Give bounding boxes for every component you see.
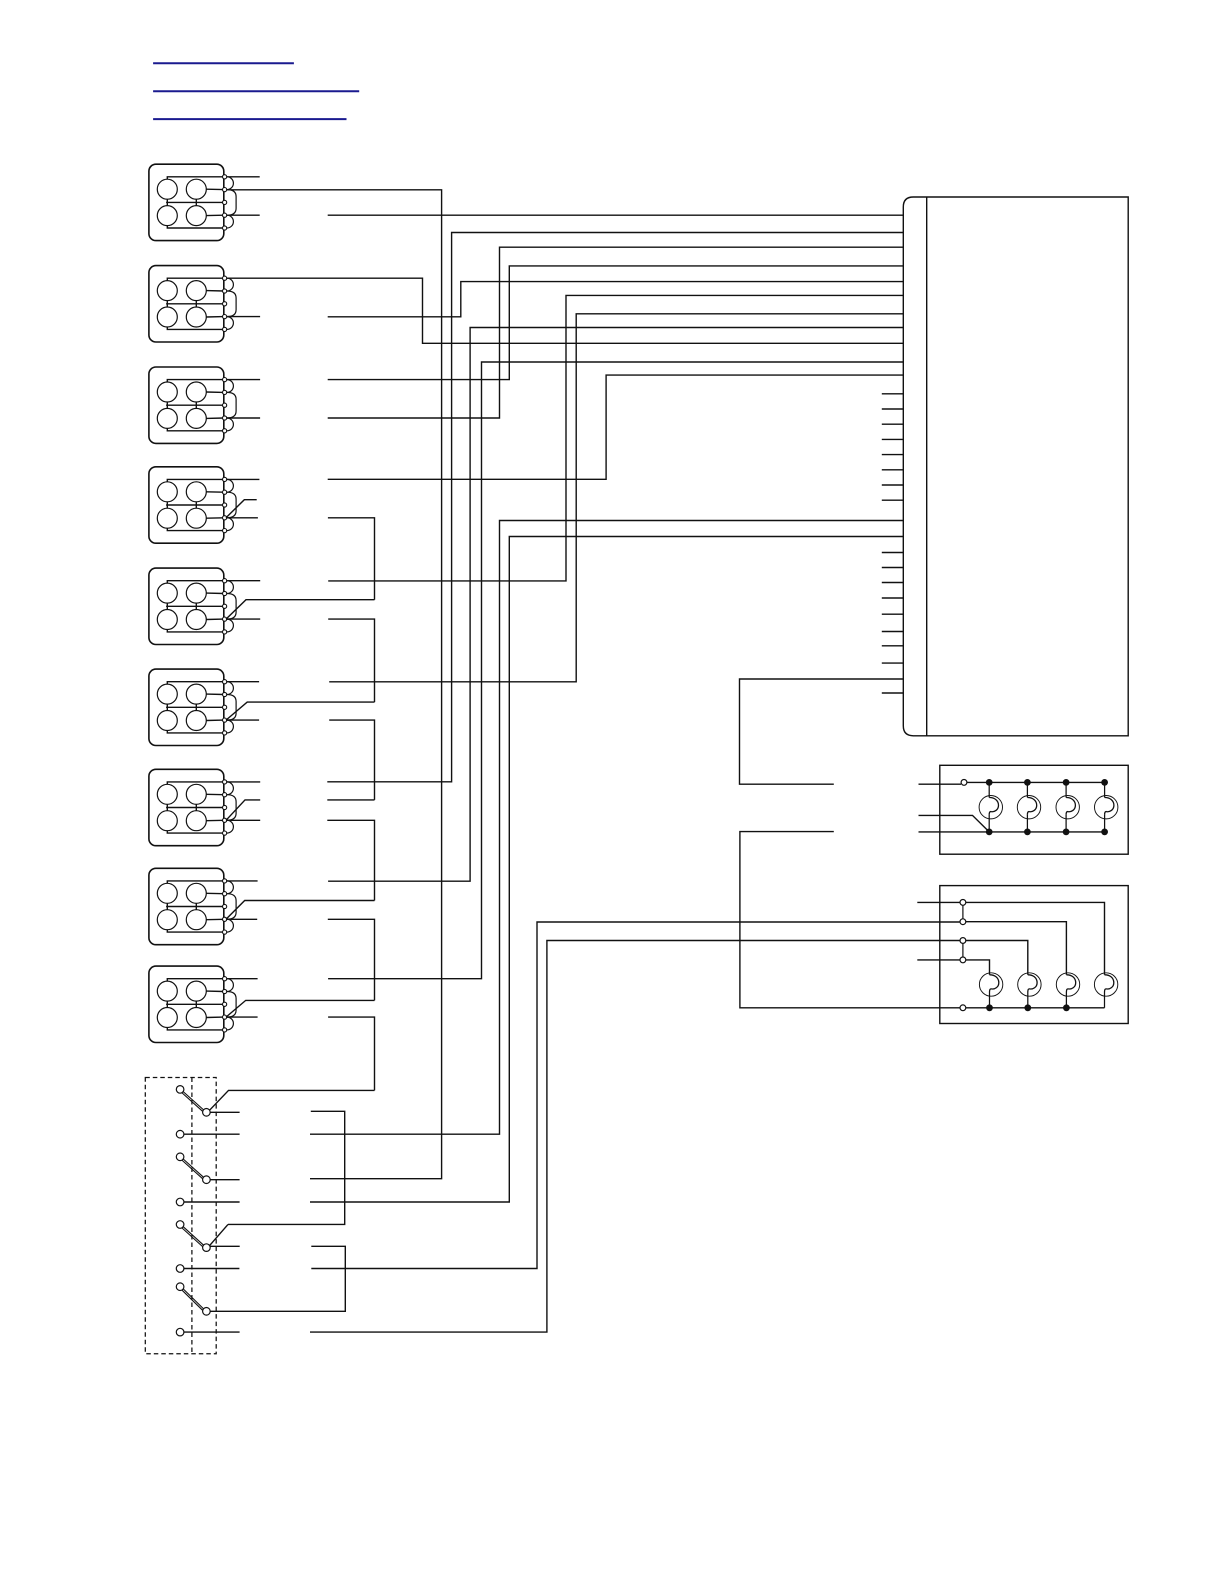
lamp L1c bulb bbox=[1056, 796, 1079, 819]
wire J7 pin1 stub bbox=[227, 781, 261, 783]
ECU pin stub B8 bbox=[882, 662, 904, 664]
leader J8 pin4 diagonal bbox=[226, 901, 375, 920]
terminal T2 bbox=[176, 1198, 184, 1206]
leader J7 pin4 diagonal bbox=[226, 800, 260, 820]
leader J4 pin4 diagonal bbox=[226, 500, 257, 518]
wire J6 pin1 stub bbox=[227, 681, 259, 683]
lamp L2c junction bbox=[1063, 1004, 1070, 1011]
lamp L2b bulb bbox=[1018, 973, 1041, 996]
lamp module 2 pin4 stub bbox=[917, 959, 960, 961]
ECU pin stub A2 bbox=[882, 408, 904, 410]
terminal T4 bbox=[176, 1328, 184, 1336]
lamp L1c stem top bbox=[1065, 782, 1067, 797]
wire J7 leader segment bbox=[327, 799, 374, 801]
lamp L1b stem top bbox=[1026, 782, 1028, 797]
hyperlink underline 2 bbox=[153, 90, 359, 92]
leader J6 pin4 diagonal bbox=[226, 702, 375, 720]
lamp L1a filament bbox=[989, 797, 998, 814]
lamp L1d junction bottom bbox=[1101, 829, 1108, 836]
wire S1 common diagonal to chain F bbox=[210, 1090, 375, 1110]
ECU pin stub B7 bbox=[882, 645, 904, 647]
wire S1 output stub bbox=[210, 1111, 239, 1113]
hyperlink underline 1 bbox=[153, 62, 294, 64]
lamp L1d stem bottom bbox=[1104, 815, 1106, 832]
lamp L1d bulb bbox=[1095, 796, 1118, 819]
wire J6 pin4 stub bbox=[227, 719, 259, 721]
wire J3 pin1 to ECU row4 bbox=[328, 266, 904, 380]
terminal T1 bbox=[176, 1130, 184, 1138]
wire J8 pin4 down chain E bbox=[328, 919, 375, 1000]
lamp L2b stem bottom bbox=[1027, 992, 1029, 1008]
connector J4 bbox=[149, 467, 236, 543]
connector J5 bbox=[149, 568, 236, 644]
wire J2 pin1 to ECU row9 bbox=[227, 278, 904, 343]
lamp module 1 box bbox=[940, 765, 1128, 854]
wire J1 pin2 to vertical x441 bbox=[227, 190, 442, 1179]
lamp L1b bulb bbox=[1017, 796, 1040, 819]
wire ECU row14 to lamp module1 pin1 bbox=[740, 679, 904, 784]
wire term1 to ECU row12 bbox=[310, 521, 903, 1135]
wire J5 pin1 to ECU row6 bbox=[328, 295, 903, 581]
terminal T3 bbox=[176, 1265, 184, 1273]
lamp module 2 bottom bus bbox=[966, 1007, 1105, 1009]
connector J8 bbox=[149, 868, 236, 944]
lamp L2d stem bottom bbox=[1104, 992, 1106, 1008]
wire pin1 to lamp L2d bbox=[966, 902, 1105, 974]
wire term3 stub bbox=[184, 1268, 240, 1270]
lamp module 2 pin2 bbox=[960, 919, 966, 925]
lamp L2a filament bbox=[990, 975, 999, 992]
wire J1 pin4 to ECU pin row1 bbox=[328, 214, 904, 216]
connector J7 bbox=[149, 769, 236, 845]
wire J2 pin4 stub bbox=[227, 316, 260, 318]
lamp module 2 pin5 bbox=[960, 1005, 966, 1011]
wire J4 pin1 to ECU row11 bbox=[328, 375, 904, 479]
lamp module 2 box bbox=[940, 886, 1128, 1024]
connector J9 bbox=[149, 966, 236, 1042]
lamp module 2 pin1 bbox=[960, 900, 966, 906]
lamp L1a bulb bbox=[979, 796, 1002, 819]
wire J9 pin4 stub bbox=[227, 1016, 258, 1018]
ECU pin stub B3 bbox=[882, 582, 904, 584]
wire J7 pin4 down chain D bbox=[327, 820, 374, 900]
lamp module 2 pin3-4 link bbox=[962, 943, 964, 957]
ECU pin stub B5 bbox=[882, 613, 904, 615]
switch S1 bbox=[176, 1086, 210, 1117]
wire lamp bus link bbox=[740, 832, 960, 1008]
ECU pin stub B1 bbox=[882, 552, 904, 554]
ECU pin stub A4 bbox=[882, 438, 904, 440]
ECU pin stub A5 bbox=[882, 454, 904, 456]
wire J7 pin1 to ECU row2 bbox=[327, 233, 903, 782]
wire pin4 to lamp L2a bbox=[966, 960, 990, 975]
lamp module 1 input pin bbox=[961, 780, 967, 786]
wire term3 to lamp module 2 pin2 bbox=[311, 922, 959, 1269]
switch box dashed outline bbox=[145, 1078, 216, 1354]
wire J9 pin1 stub bbox=[227, 978, 258, 980]
hyperlink underline 3 bbox=[153, 118, 346, 120]
ECU pin stub A7 bbox=[882, 484, 904, 486]
lamp L2c filament bbox=[1066, 975, 1075, 992]
lamp L2b junction bbox=[1024, 1004, 1031, 1011]
ECU pin stub A1 bbox=[882, 393, 904, 395]
lamp L1a junction top bbox=[986, 779, 993, 786]
ECU pin stub A8 bbox=[882, 499, 904, 501]
ECU pin stub A3 bbox=[882, 423, 904, 425]
connector J6 bbox=[149, 669, 236, 745]
lamp module 2 pin1 stub bbox=[917, 901, 960, 903]
wire J9 pin4 down chain F bbox=[328, 1017, 374, 1090]
lamp L1b junction bottom bbox=[1024, 829, 1031, 836]
wire J1 pin1 stub bbox=[227, 176, 260, 178]
wire lamp module1 mid entry bbox=[919, 815, 990, 832]
lamp L1b junction top bbox=[1024, 779, 1031, 786]
wire lamp module1 pin1 segment bbox=[919, 783, 962, 785]
wire J3 pin1 stub bbox=[227, 379, 260, 381]
connector J2 bbox=[149, 266, 236, 342]
wire jumper S3-S4 bracket bbox=[210, 1246, 346, 1311]
lamp L2d filament bbox=[1105, 975, 1114, 992]
wire term2 stub bbox=[184, 1201, 240, 1203]
lamp module 1 bottom bus bbox=[989, 831, 1104, 833]
wire J4 pin4 down chain A bbox=[328, 518, 375, 600]
switch S2 bbox=[176, 1153, 210, 1183]
ECU pin stub A6 bbox=[882, 469, 904, 471]
wire sw2 output stub bbox=[210, 1179, 239, 1181]
wire J8 pin1 stub bbox=[227, 880, 258, 882]
lamp L2b filament bbox=[1028, 975, 1037, 992]
connector J3 bbox=[149, 367, 236, 443]
wire term2 to ECU row13 bbox=[310, 537, 903, 1203]
wire J1 pin4 stub bbox=[227, 214, 260, 216]
wire J7 pin4 stub bbox=[227, 819, 261, 821]
lamp module 2 pin4 bbox=[960, 957, 966, 963]
wire S3 output stub bbox=[210, 1245, 240, 1247]
wire J5 pin4 stub bbox=[227, 618, 261, 620]
lamp L2a stem bottom bbox=[989, 992, 991, 1008]
lamp L2c stem bottom bbox=[1065, 992, 1067, 1008]
wire jumper S1-S3 bracket bbox=[228, 1111, 345, 1224]
wire J5 pin1 stub bbox=[227, 580, 261, 582]
lamp L1d stem top bbox=[1104, 782, 1106, 797]
wire J4 pin4 stub bbox=[227, 517, 258, 519]
ECU pin stub B2 bbox=[882, 567, 904, 569]
wire term4 stub bbox=[184, 1331, 240, 1333]
lamp L1a stem bottom bbox=[988, 815, 990, 832]
switch box dashed divider bbox=[191, 1078, 193, 1354]
lamp L1c junction top bbox=[1063, 779, 1070, 786]
lamp L1a junction bottom bbox=[986, 829, 993, 836]
lamp L2a bulb bbox=[979, 973, 1002, 996]
lamp L1d filament bbox=[1105, 797, 1114, 814]
ECU connector divider bbox=[926, 197, 928, 736]
lamp L1a stem top bbox=[988, 782, 990, 797]
lamp L2d bulb bbox=[1094, 973, 1117, 996]
lamp L1c stem bottom bbox=[1065, 815, 1067, 832]
leader J9 pin4 diagonal bbox=[226, 1000, 375, 1017]
wire pin2 to lamp L2c bbox=[966, 922, 1067, 975]
wire term1 stub bbox=[184, 1133, 240, 1135]
wire J2 pin4 to ECU row5 bbox=[328, 282, 904, 317]
wire S3 common diagonal bbox=[210, 1224, 228, 1245]
wire J9 pin1 to ECU row10 bbox=[328, 362, 903, 979]
ECU pin stub B4 bbox=[882, 597, 904, 599]
lamp L1c filament bbox=[1066, 797, 1075, 814]
switch S3 bbox=[176, 1221, 210, 1252]
lamp L1d junction top bbox=[1101, 779, 1108, 786]
wire J5 pin4 down chain B bbox=[328, 619, 374, 702]
wire J3 pin4 stub bbox=[227, 417, 260, 419]
wire J3 pin4 to ECU row3 bbox=[328, 247, 904, 418]
wire J6 pin1 to ECU row7 bbox=[329, 314, 903, 682]
lamp module 2 pin1-2 link bbox=[962, 905, 964, 919]
lamp L2a junction bbox=[986, 1004, 993, 1011]
wire J8 pin4 stub bbox=[227, 918, 258, 920]
lamp L1c junction bottom bbox=[1063, 829, 1070, 836]
wire lamp module1 bottom entry bbox=[919, 831, 990, 833]
lamp module 2 pin3 bbox=[960, 938, 966, 944]
wire J4 pin1 stub bbox=[227, 478, 260, 480]
lamp L1b stem bottom bbox=[1026, 815, 1028, 832]
connector J1 bbox=[149, 164, 236, 240]
ECU main unit box bbox=[903, 197, 1128, 736]
wire J8 pin1 to ECU row8 bbox=[328, 328, 903, 882]
ECU pin stub B6 bbox=[882, 631, 904, 633]
wire pin3 to lamp L2b bbox=[966, 941, 1028, 975]
wire term4 to lamp module 2 pin3 bbox=[310, 941, 960, 1333]
wire J6 pin4 down chain C bbox=[329, 720, 374, 800]
leader J5 pin4 diagonal bbox=[226, 600, 375, 619]
switch S4 bbox=[176, 1283, 210, 1315]
lamp L1b filament bbox=[1027, 797, 1036, 814]
ECU pin stub B9 bbox=[882, 692, 904, 694]
lamp L2c bulb bbox=[1056, 973, 1079, 996]
lamp module 1 top bus bbox=[967, 781, 1105, 783]
